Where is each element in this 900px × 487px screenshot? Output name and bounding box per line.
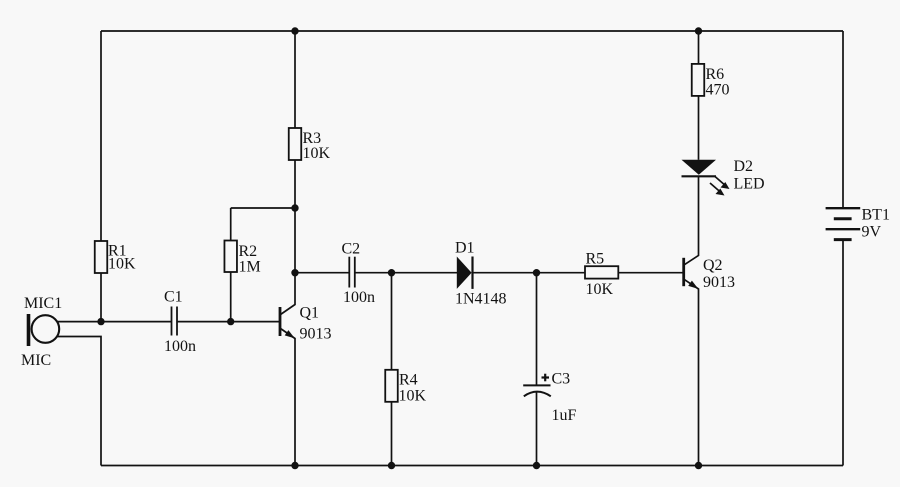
resistor R6 bbox=[692, 31, 730, 160]
node R2 base bbox=[227, 318, 234, 325]
node R1 MIC bbox=[97, 318, 104, 325]
svg-text:1uF: 1uF bbox=[552, 407, 577, 424]
LED D2 bbox=[682, 158, 765, 196]
node top R3 bbox=[291, 27, 298, 34]
node R4 top bbox=[388, 269, 395, 276]
node Q2 emitter bottom bbox=[695, 462, 702, 469]
svg-text:10K: 10K bbox=[108, 256, 136, 273]
svg-text:Q1: Q1 bbox=[300, 305, 320, 322]
svg-text:9013: 9013 bbox=[300, 326, 332, 343]
transistor Q2 bbox=[684, 176, 735, 465]
wire MIC ground bbox=[57, 337, 101, 466]
resistor R4 bbox=[385, 273, 426, 466]
node R2 feedback bbox=[291, 204, 298, 211]
resistor R5 bbox=[585, 251, 618, 299]
capacitor C2 bbox=[342, 241, 376, 307]
svg-text:1M: 1M bbox=[239, 259, 261, 276]
svg-text:10K: 10K bbox=[586, 281, 614, 298]
node Q1 emitter bottom bbox=[291, 462, 298, 469]
wire R5 to Q2 base bbox=[618, 272, 683, 274]
svg-text:C3: C3 bbox=[552, 371, 571, 388]
wire D1 to R5 bbox=[473, 272, 586, 274]
svg-text:C1: C1 bbox=[164, 289, 183, 306]
capacitor C1 bbox=[164, 289, 196, 356]
node C3 bottom bbox=[533, 462, 540, 469]
resistor R1 bbox=[95, 241, 136, 322]
node Q1 collector bbox=[291, 269, 298, 276]
svg-text:10K: 10K bbox=[303, 145, 331, 162]
wire top rail bbox=[101, 30, 843, 32]
svg-text:R4: R4 bbox=[399, 372, 418, 389]
wire C1 to Q1 base bbox=[177, 321, 279, 323]
svg-text:BT1: BT1 bbox=[862, 207, 890, 224]
svg-text:D1: D1 bbox=[455, 240, 475, 257]
wire MIC to C1 bbox=[57, 321, 171, 323]
wire R2 feedback bbox=[231, 207, 295, 209]
svg-text:R5: R5 bbox=[586, 251, 605, 268]
node top R6 bbox=[695, 27, 702, 34]
wire C2 to D1 bbox=[355, 272, 457, 274]
microphone MIC1 bbox=[21, 295, 62, 369]
battery BT1 bbox=[826, 207, 890, 466]
svg-text:Q2: Q2 bbox=[703, 257, 723, 274]
svg-text:LED: LED bbox=[734, 176, 765, 193]
wire Q1 collector to C2 bbox=[295, 272, 349, 274]
svg-text:R6: R6 bbox=[706, 66, 725, 83]
node C3 top bbox=[533, 269, 540, 276]
svg-text:100n: 100n bbox=[164, 338, 196, 355]
svg-text:C2: C2 bbox=[342, 241, 361, 258]
svg-text:9013: 9013 bbox=[703, 274, 735, 291]
svg-text:R2: R2 bbox=[239, 243, 258, 260]
diode D1 bbox=[455, 240, 507, 308]
svg-text:10K: 10K bbox=[399, 388, 427, 405]
svg-text:1N4148: 1N4148 bbox=[455, 291, 507, 308]
svg-text:9V: 9V bbox=[862, 224, 882, 241]
resistor R2 bbox=[224, 208, 260, 322]
resistor R3 bbox=[289, 31, 331, 273]
svg-text:100n: 100n bbox=[343, 289, 375, 306]
wire right rail bbox=[842, 31, 844, 208]
capacitor C3 bbox=[523, 273, 576, 466]
wire left rail bbox=[100, 31, 102, 241]
transistor Q1 bbox=[280, 273, 332, 466]
node R4 bottom bbox=[388, 462, 395, 469]
svg-text:MIC1: MIC1 bbox=[24, 295, 62, 312]
wire bottom rail bbox=[101, 465, 843, 467]
svg-text:D2: D2 bbox=[734, 158, 754, 175]
svg-text:MIC: MIC bbox=[21, 352, 51, 369]
svg-text:470: 470 bbox=[706, 82, 730, 99]
